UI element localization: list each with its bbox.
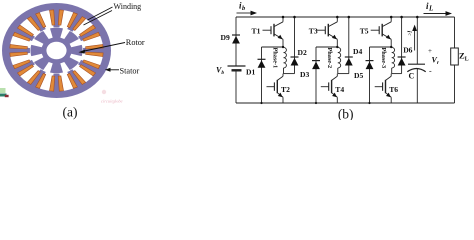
svg-text:Rotor: Rotor <box>126 38 145 47</box>
svg-text:T5: T5 <box>360 26 369 35</box>
svg-text:D5: D5 <box>354 71 363 80</box>
svg-text:+: + <box>428 47 432 55</box>
junction top bus capacitor <box>416 16 419 19</box>
svg-text:T3: T3 <box>309 26 318 35</box>
svg-text:T2: T2 <box>281 85 290 94</box>
junction top bus D4 <box>348 16 351 19</box>
inductor Phase-3 winding <box>392 47 395 68</box>
svg-text:Stator: Stator <box>120 67 140 76</box>
junction top bus T1 <box>282 16 285 19</box>
diode D1 <box>258 59 266 68</box>
wire node B of Phase-1 leg <box>284 73 295 75</box>
stator teeth <box>7 7 107 94</box>
stator bore <box>10 10 104 92</box>
rotor pointer arrowhead <box>79 50 86 54</box>
svg-text:Winding: Winding <box>114 2 142 11</box>
capacitor branch wire bottom <box>416 69 418 103</box>
svg-text:D9: D9 <box>221 33 230 42</box>
rotor pointer line <box>82 43 125 52</box>
wire node A of Phase-2 leg <box>316 46 337 48</box>
wire D1 branch <box>261 47 263 103</box>
transistor T6 <box>375 74 392 103</box>
wire coil bottom <box>283 68 285 74</box>
battery Vb long plate <box>228 65 246 67</box>
junction top bus T3 <box>336 16 339 19</box>
svg-text:(a): (a) <box>63 104 78 119</box>
svg-text:C: C <box>409 72 415 81</box>
watermark logo teal <box>0 94 7 97</box>
wire D3 branch <box>315 47 317 103</box>
junction node A <box>390 46 392 48</box>
current arrow ic <box>412 25 417 51</box>
top bus <box>236 16 455 18</box>
rotor body <box>30 28 82 73</box>
svg-text:D3: D3 <box>300 70 309 79</box>
wire D2 branch <box>294 17 296 74</box>
svg-text:T6: T6 <box>389 85 398 94</box>
current arrow ib <box>237 11 258 16</box>
diode D2 <box>291 57 299 66</box>
capacitor C curved plate <box>407 69 425 72</box>
svg-text:T4: T4 <box>335 85 344 94</box>
wire below battery <box>235 70 237 103</box>
svg-text:T1: T1 <box>252 26 261 35</box>
battery Vb short plate <box>232 69 242 71</box>
diode D9 <box>232 35 240 44</box>
capacitor C top plate <box>408 63 425 65</box>
wire node B of Phase-2 leg <box>338 73 349 75</box>
watermark pink dot <box>102 90 106 94</box>
diode D6 <box>398 57 406 66</box>
current arrow iL <box>424 11 453 16</box>
wire node A of Phase-3 leg <box>370 46 392 48</box>
right rail top <box>454 17 456 48</box>
inductor Phase-1 winding <box>284 47 287 68</box>
transistor T1 <box>263 17 284 47</box>
junction bottom bus D5 <box>368 102 370 104</box>
winding wedges <box>10 10 103 91</box>
wire D5 branch <box>369 47 371 103</box>
watermark logo red <box>5 95 9 97</box>
inductor Phase-2 winding <box>338 47 341 68</box>
winding pointer line 2 <box>84 11 113 26</box>
junction node A <box>336 46 338 48</box>
stator pointer arrowhead <box>105 68 111 72</box>
junction top bus T5 <box>390 16 393 19</box>
junction node A <box>282 46 284 48</box>
svg-text:circuitglobe: circuitglobe <box>101 99 123 104</box>
junction top bus D2 <box>293 16 296 19</box>
label ic rotated <box>405 31 412 37</box>
capacitor branch wire top <box>416 17 418 64</box>
svg-text:Phase-1: Phase-1 <box>272 48 279 69</box>
svg-text:(b): (b) <box>338 107 354 121</box>
svg-text:D2: D2 <box>298 48 307 57</box>
stator pointer line <box>108 69 119 71</box>
watermark logo green <box>0 88 6 93</box>
svg-text:D4: D4 <box>353 47 362 56</box>
diode D4 <box>345 57 353 66</box>
load ZL box <box>451 48 459 65</box>
wire D4 branch <box>348 17 350 74</box>
rotor interpolar notches <box>30 28 82 74</box>
motor stator outer ring <box>2 3 111 98</box>
svg-text:-: - <box>429 67 432 76</box>
bottom bus <box>236 102 455 104</box>
junction bottom bus D3 <box>315 102 317 104</box>
transistor T2 <box>267 74 284 103</box>
svg-text:D1: D1 <box>246 68 255 77</box>
right rail bottom <box>454 65 456 103</box>
junction bottom bus D1 <box>260 102 262 104</box>
transistor T3 <box>317 17 338 47</box>
junction top bus D6 <box>400 16 403 19</box>
wire coil bottom <box>337 68 339 74</box>
svg-text:Phase-3: Phase-3 <box>380 48 387 69</box>
svg-text:Phase-2: Phase-2 <box>326 48 333 69</box>
wire node A of Phase-1 leg <box>262 46 284 48</box>
wire D6 branch <box>401 17 403 74</box>
left supply rail <box>235 17 237 66</box>
rotor shaft hole <box>46 42 66 60</box>
wire node B of Phase-3 leg <box>392 73 402 75</box>
svg-text:D6: D6 <box>403 46 412 55</box>
winding pointer line 1 <box>88 7 113 20</box>
transistor T5 <box>371 17 392 47</box>
diode D5 <box>366 61 374 70</box>
diode D3 <box>312 61 320 70</box>
transistor T4 <box>321 74 338 103</box>
wire coil bottom <box>391 68 393 74</box>
